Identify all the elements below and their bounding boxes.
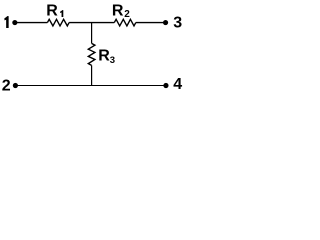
svg-text:4: 4 — [173, 76, 182, 93]
svg-text:3: 3 — [173, 14, 182, 31]
svg-text:R: R — [98, 47, 110, 64]
svg-text:R: R — [46, 2, 58, 19]
svg-text:R: R — [112, 2, 124, 19]
svg-text:3: 3 — [110, 55, 115, 66]
svg-text:2: 2 — [2, 77, 11, 94]
svg-text:2: 2 — [124, 9, 130, 20]
